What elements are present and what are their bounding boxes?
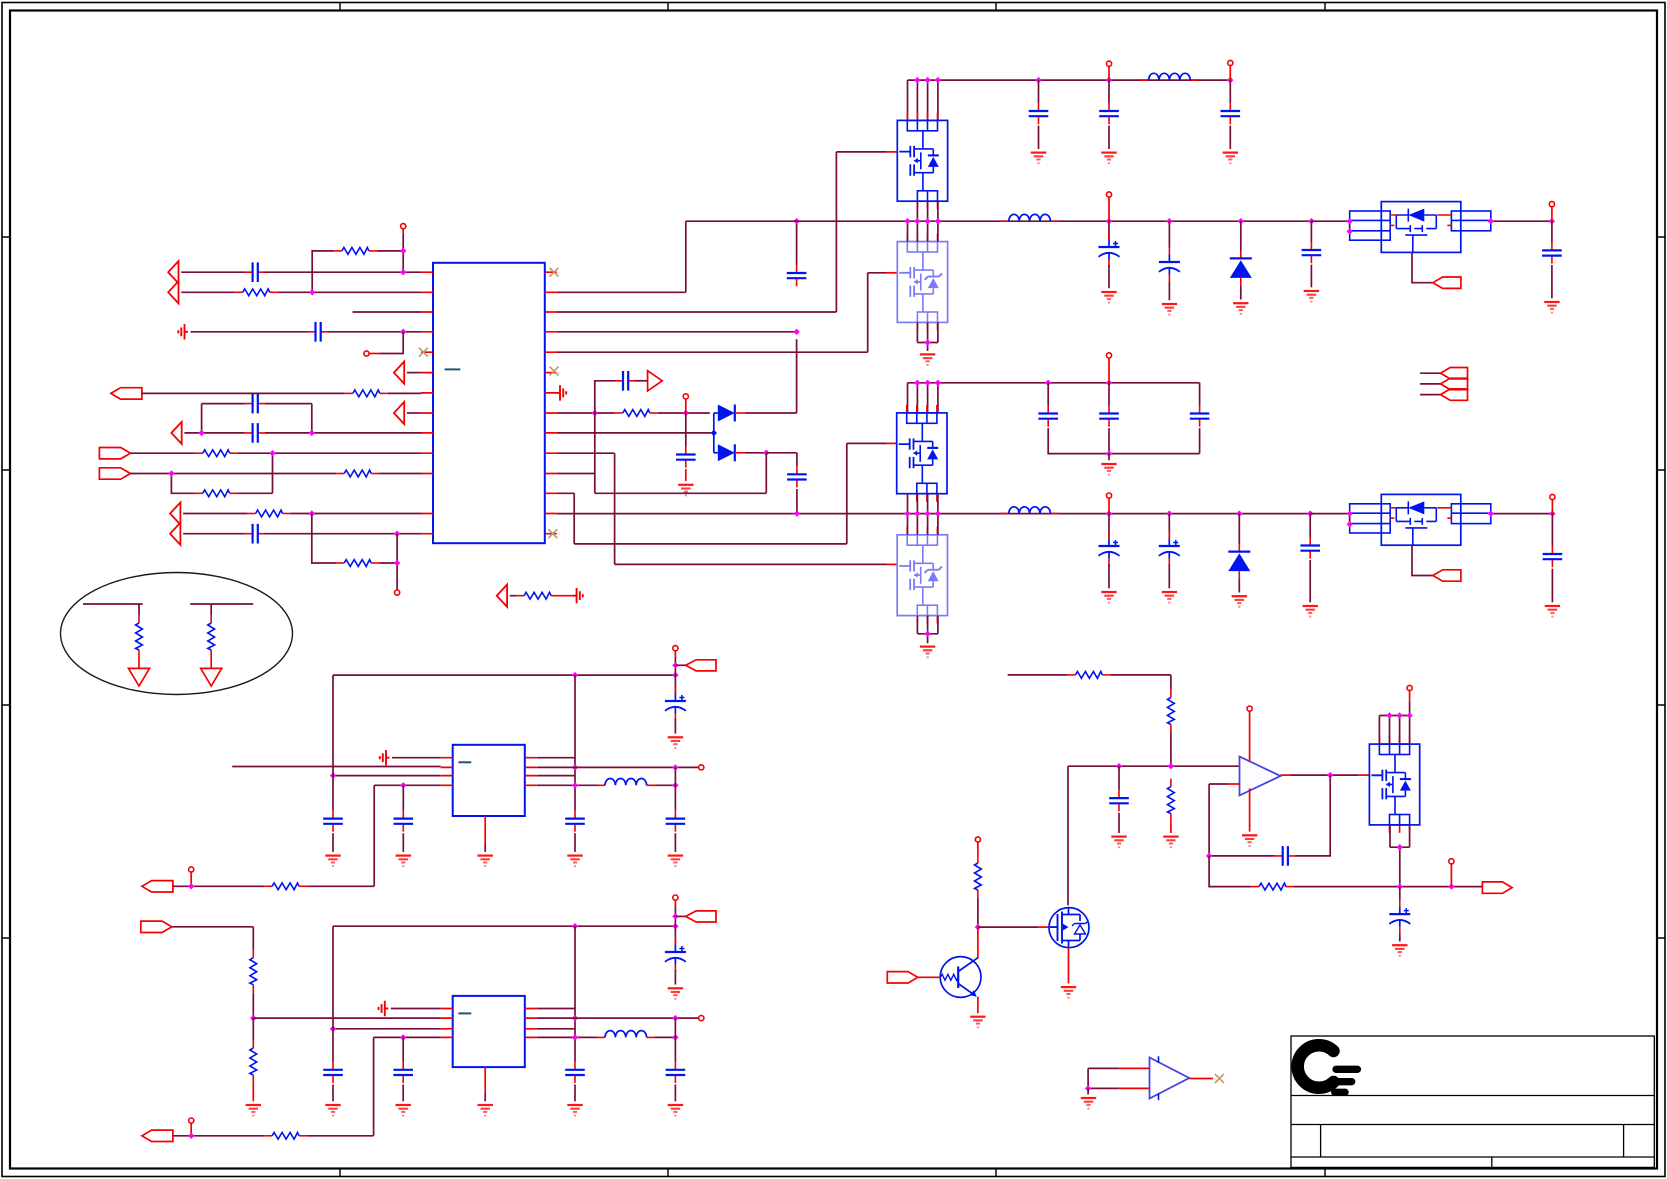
port flag PS1 [1441, 368, 1468, 379]
wire C25 gnd [402, 833, 404, 852]
capacitor C10 [1029, 103, 1049, 124]
op-amp minus stub [1228, 783, 1240, 785]
capacitor C36 polarized [1389, 899, 1410, 934]
wire C21 gnd [1168, 564, 1170, 588]
snubber dot [1106, 450, 1112, 456]
wire cap C6 drop [685, 413, 687, 447]
power bars flag PF2 [573, 588, 583, 603]
wire R8 link right [379, 534, 397, 590]
reg1 rail cap drop [332, 776, 334, 811]
sense mid dots [1116, 763, 1122, 769]
ground G33 [1242, 835, 1257, 846]
wire row473 link [557, 413, 767, 493]
terminal T6 [1228, 60, 1233, 65]
ground G12 [920, 647, 935, 658]
port flag IOUT [1482, 882, 1512, 893]
R16 to node [1170, 732, 1172, 766]
capacitor C24 [323, 811, 343, 832]
power bars flag PF5 [379, 1001, 389, 1016]
wire row453 to gate4 [557, 453, 886, 564]
wire cap link rail [202, 404, 312, 433]
wire C15 gnd [1310, 265, 1312, 288]
port flag FB1 [142, 881, 173, 892]
U5 right riser [574, 926, 576, 1062]
capacitor C26 polarized [665, 686, 686, 721]
block5 top wires [1379, 702, 1409, 744]
ground G32 [1111, 837, 1126, 848]
op-amp out dot [1327, 772, 1333, 778]
U5 pin1 right wire [537, 1008, 575, 1010]
wire C22 gnd [1309, 560, 1311, 602]
regulator U5 body [453, 996, 525, 1067]
Q1 emitter wire [977, 997, 979, 1014]
capacitor C25 [394, 811, 414, 832]
sense top wire [1008, 674, 1068, 676]
reg1 rail cap2 drop [674, 675, 676, 693]
wire R2 right to node [377, 251, 403, 272]
capacitor C6 [676, 447, 696, 468]
U4 pin3 right wire [537, 775, 575, 777]
wire AIN1 to cap [181, 271, 244, 273]
phase bus2 wire [557, 513, 1310, 515]
diode D1 [714, 405, 745, 422]
wire R1 to U1 [278, 259, 421, 292]
resistor R18 [1251, 883, 1294, 890]
resistor R17 [1168, 779, 1175, 822]
snubber gnd stub [1108, 454, 1110, 461]
reg2 rail dots [572, 923, 578, 929]
LS1 left wires [1311, 221, 1349, 231]
terminal T3 [395, 590, 400, 595]
capacitor C18 [1099, 406, 1119, 427]
regulator U4 body [453, 745, 525, 816]
bus1 cap drop 1 [1108, 221, 1110, 239]
wire C32 gnd [574, 1084, 576, 1101]
U5 internal ref dash [458, 1012, 471, 1014]
wire C10 gnd [1038, 126, 1040, 149]
capacitor C2 [308, 322, 329, 342]
terminal T15 [673, 895, 678, 900]
bottom border zone ticks [340, 1169, 1325, 1177]
capacitor C7 [787, 265, 807, 286]
ground G3 [1101, 153, 1116, 164]
reg1 fb wire right [307, 785, 374, 886]
wire C8 to bus2 [796, 489, 798, 514]
comparator gnd stub [1087, 1088, 1089, 1094]
ground G6 [1101, 292, 1116, 303]
wire flag stack 2 [1420, 383, 1440, 385]
LS2 out cap drop [1551, 514, 1553, 546]
wire VIN1 to R3 [142, 392, 345, 394]
LS1 gate wire [1412, 252, 1433, 282]
terminal T7 [1106, 192, 1111, 197]
wire R7 to U1 [291, 513, 421, 515]
diode D3 [1230, 251, 1252, 285]
capacitor C17 [1038, 406, 1058, 427]
ground G28 [668, 988, 683, 999]
capacitor C21 polarized [1159, 531, 1180, 566]
wire crossover right vert [238, 453, 273, 493]
VO2 tap dot [672, 913, 678, 919]
no-connect X1 [419, 348, 428, 357]
bus1 cap drop 3 [1310, 221, 1312, 242]
ground G4 [1223, 153, 1238, 164]
Q1 to Q2 gate [978, 926, 1038, 928]
resistor R14 [264, 1132, 307, 1139]
terminal T9 [1106, 353, 1111, 358]
wire C29 gnd [332, 1084, 334, 1101]
gate3 pin stub [886, 442, 897, 444]
reg1 rail wire [333, 675, 675, 776]
Q2 source wire [1068, 947, 1070, 983]
wire VO2 tap [675, 915, 685, 917]
resistor R12 [250, 950, 257, 993]
capacitor C5 [245, 524, 266, 544]
wire R2 left vert [312, 251, 334, 260]
wire R10 to diode node [658, 412, 710, 414]
resistor R15 [1067, 672, 1110, 679]
port flag CTL1 [1433, 277, 1461, 288]
wire row413 net [557, 412, 615, 414]
wire C31 gnd [674, 970, 676, 985]
resistor R9 [516, 592, 559, 599]
bus1 diode drop [1240, 221, 1242, 251]
U4 pin4 right wire [537, 784, 597, 786]
reg2 rail cap2 drop [674, 926, 676, 944]
comparator dot [1085, 1085, 1091, 1091]
junction dots crossover [269, 450, 275, 456]
resistor R7 [248, 510, 291, 517]
reg2 C30 drop [402, 1037, 404, 1061]
wire crossover left vert [171, 474, 194, 494]
wire C13 gnd [1108, 265, 1110, 288]
wire C7 top to bus1 [796, 221, 798, 265]
controller U1 body [433, 263, 545, 543]
ground G26 [396, 1105, 411, 1116]
fb lower net [1209, 856, 1251, 887]
comparator rail ticks [1158, 1056, 1160, 1100]
inductor L1 [1141, 73, 1199, 80]
bus pair2 dots [914, 380, 920, 386]
LS1 out dots [1488, 218, 1494, 224]
wire D2 out [745, 452, 767, 454]
wire C11 gnd [1108, 126, 1110, 149]
resistor R4 [195, 450, 238, 457]
ground G21 [668, 737, 683, 748]
capacitor C32 [565, 1062, 585, 1083]
wire U1 to bus1 riser [557, 221, 686, 292]
diode D4 [1228, 545, 1250, 579]
wire C20 gnd [1108, 564, 1110, 588]
company logo C mark [1298, 1045, 1358, 1092]
resistor R10 [615, 410, 658, 417]
wire R32 to ground [210, 658, 212, 668]
resistor R31 [136, 615, 143, 658]
capacitor C22 [1300, 538, 1320, 559]
bus0 junction dots [914, 77, 920, 83]
port arrow AIN2 [168, 281, 178, 303]
block1 bottom drops [917, 201, 938, 221]
U1 right pin stubs [545, 272, 557, 534]
reg2 divider top wire [172, 927, 254, 950]
capacitor C15 [1302, 242, 1322, 263]
terminal T14 [189, 867, 194, 872]
wire PF1 to cap C2 [191, 331, 308, 333]
port flag ID2 [99, 468, 130, 479]
wire D4 gnd [1238, 579, 1240, 593]
wire stub R31 [83, 604, 143, 615]
junction dots rows 513/533 [309, 510, 315, 516]
ground G22 [567, 856, 582, 867]
wire R8 link left [312, 514, 336, 564]
ground G17 [1545, 606, 1560, 617]
junction blue dot diodes [711, 430, 717, 436]
fb cap net [1295, 775, 1330, 856]
wire C26 gnd [674, 719, 676, 734]
terminal T21 [975, 837, 980, 842]
capacitor C33 [666, 1062, 686, 1083]
no-connect X5 [1215, 1074, 1224, 1083]
capacitor C11 [1099, 103, 1119, 124]
U5 pin2 right wire [537, 1017, 699, 1019]
port arrow AIN4 [170, 502, 180, 524]
R18 to out node [1294, 886, 1482, 888]
resistor R1 [235, 289, 278, 296]
no-connect X4 [548, 529, 557, 538]
block2 top drops [908, 221, 938, 241]
title block cell dividers [1321, 1125, 1624, 1168]
terminal T2 [364, 351, 369, 356]
terminal T5 [1106, 61, 1111, 66]
comparator minus stub [1119, 1087, 1150, 1089]
block4 bottom join [917, 616, 938, 644]
resistor R3 [345, 390, 388, 397]
terminal T17 [189, 1118, 194, 1123]
reg2 rail wire [333, 926, 675, 1029]
capacitor C30 [393, 1062, 413, 1083]
terminal T18 [1247, 706, 1252, 711]
wire ID2 row [130, 473, 336, 475]
wire MID1 to R9 [510, 595, 516, 597]
ground G24 [246, 1105, 261, 1116]
wire EN2 arrow to U1 [407, 412, 421, 414]
terminal T20 [1449, 859, 1454, 864]
U4 gnd pin stub [484, 816, 486, 844]
U4 pin1 wire [392, 757, 441, 759]
fb cap left [1209, 784, 1275, 856]
U4 pin2 right wire [537, 766, 699, 768]
wire C2 to U1 [328, 331, 421, 333]
snubber bottom rail [1048, 428, 1199, 454]
sense mid row [1068, 765, 1239, 767]
port flag VO1 [686, 660, 716, 671]
wire C3 leads [202, 403, 312, 405]
wire C9 to arrow [635, 380, 647, 382]
ground G30 [668, 1105, 683, 1116]
port flag VIN1 [111, 388, 142, 399]
LS2 left wires [1310, 514, 1350, 525]
block5 bottom dot [1397, 844, 1403, 850]
op-amp U6 [1240, 757, 1281, 796]
capacitor C28 [666, 811, 686, 832]
U4 left dots [330, 772, 336, 778]
U5 gnd pin stub [484, 1067, 486, 1094]
block5 gate stub [1358, 774, 1369, 776]
bus2 cap drop 3 [1309, 514, 1311, 538]
bus2 cap drop 1 [1108, 514, 1110, 538]
U4 left pin stubs [441, 758, 453, 786]
terminal T19 [1407, 685, 1412, 690]
LS1 out wire [1491, 220, 1552, 222]
no-connect X3 [550, 367, 559, 376]
LS2 out dots [1488, 510, 1494, 516]
wire R17 gnd [1170, 822, 1172, 833]
load switch U2 [1350, 202, 1491, 253]
inductor L4 [597, 779, 655, 786]
power bars flag PF4 [380, 750, 390, 765]
wire row332 net [557, 331, 797, 333]
U5 gnd wire [484, 1094, 486, 1101]
wire D1 out riser [745, 339, 797, 413]
phase bus1 dots [904, 218, 910, 224]
wire AIN4 to R7 [183, 513, 248, 515]
capacitor C3 [245, 394, 266, 414]
Q2 drain riser [1067, 766, 1069, 905]
wire T1 to R2 node [402, 234, 404, 251]
MOSFET module Q12 [897, 405, 947, 502]
MOSFET module Q11 [897, 234, 947, 331]
bus0 cap drop 3 [1229, 80, 1231, 103]
sense top right [1110, 675, 1171, 690]
block3 top drops [917, 383, 938, 413]
wire flag stack 1 [1420, 372, 1440, 374]
ground G35 [970, 1017, 985, 1028]
reg2 out riser [674, 1018, 676, 1062]
ground G37 [1081, 1098, 1096, 1109]
resistor R19 [975, 855, 982, 898]
op-amp out stub [1281, 774, 1292, 776]
bus2 cap drop 2 [1168, 514, 1170, 538]
U4 pin3 wire [333, 775, 441, 777]
port flag PS3 [1441, 389, 1468, 400]
wire R31 to ground [138, 658, 140, 668]
U5 pin4 right wire [537, 1036, 597, 1038]
wire gate2 net [557, 273, 886, 352]
resistor R16 [1168, 689, 1175, 732]
reg2 fb wire [173, 1135, 264, 1137]
ground G19 [396, 856, 411, 867]
ground G7 [1162, 304, 1177, 315]
U5 left dots [330, 1026, 336, 1032]
reg2 rail cap drop [332, 1029, 334, 1062]
wire C34 gnd [1118, 813, 1120, 833]
terminal T1 [401, 224, 406, 229]
U5 pin3 wire [333, 1028, 441, 1030]
port arrow MID1 [497, 585, 507, 607]
wire C28 gnd [674, 833, 676, 852]
junction dot row332 [400, 329, 406, 335]
title block row lines [1291, 1096, 1654, 1158]
U4 gnd wire [484, 844, 486, 852]
wire R13 gnd [252, 1083, 254, 1101]
U5 right pin stubs [525, 1009, 537, 1038]
op-amp out wire [1291, 774, 1358, 776]
comparator plus stub [1119, 1067, 1150, 1069]
reg1 rail dots [572, 672, 578, 678]
capacitor C23 [1543, 546, 1563, 567]
phase bus2 dots [794, 510, 800, 516]
U1 internal ref dash [445, 368, 461, 370]
wire R9 to PF2 [559, 595, 577, 597]
resistor R5 [336, 470, 379, 477]
wire tap riser [595, 381, 615, 413]
comparator plus wire [1088, 1068, 1119, 1088]
ground G15 [1232, 596, 1247, 607]
VO1 tap dot [672, 662, 678, 668]
dual diode common-anode bar [713, 413, 715, 453]
capacitor C31 polarized [665, 937, 686, 972]
wire AIN5 to C5 [183, 533, 245, 535]
reg1 out node [655, 784, 676, 786]
reg1 out dots [672, 764, 678, 770]
option ellipse [61, 573, 293, 695]
reg2 out dots [672, 1015, 678, 1021]
capacitor C14 polarized [1159, 247, 1180, 282]
port flag BASE1 [887, 972, 918, 983]
port flag VO2 [686, 911, 716, 922]
wire C1 to U1 [265, 271, 421, 273]
right border zone ticks [1657, 237, 1665, 938]
wire row493 to gate3 [557, 443, 886, 544]
load switch U3 [1350, 494, 1491, 545]
Q1 collector drop [977, 927, 979, 958]
capacitor C29 [323, 1062, 343, 1083]
resistor R13 [250, 1040, 257, 1083]
block5 top dots [1386, 712, 1392, 718]
capacitor C12 [1221, 103, 1241, 124]
U5 right riser dots [572, 1015, 578, 1021]
LS2 out wire [1491, 513, 1553, 515]
U4 right riser [574, 675, 576, 811]
terminal T8 [1549, 202, 1554, 207]
inductor L3 [1001, 507, 1059, 514]
wire C6 gnd [685, 469, 687, 481]
ground G34 [1392, 945, 1407, 956]
reg2 divider mid [252, 993, 254, 1018]
wire VO1 tap [675, 664, 685, 666]
wire C23 gnd [1551, 569, 1553, 603]
port arrow EN2 [394, 402, 404, 424]
U4 pin4 wire [374, 784, 441, 786]
capacitor C8 [787, 466, 807, 487]
U5 pin4 wire [374, 1036, 441, 1038]
MOSFET module Q14 [1369, 736, 1419, 833]
ground G11 [1101, 464, 1116, 475]
ground G5 [920, 354, 935, 365]
port flag CTL2 [1433, 570, 1461, 581]
resistor R2 [334, 248, 377, 255]
ground G18 [325, 856, 340, 867]
port arrow tap right [648, 371, 663, 391]
port arrow AIN1 [168, 261, 178, 283]
port flag ID1 [99, 448, 130, 459]
block3 bottom drops [908, 494, 938, 514]
capacitor C20 polarized [1099, 531, 1120, 566]
phase bus1 wire [686, 220, 1312, 222]
port arrow AIN5 [170, 523, 180, 545]
U4 right riser dots [572, 764, 578, 770]
U4 internal ref dash [458, 761, 471, 763]
